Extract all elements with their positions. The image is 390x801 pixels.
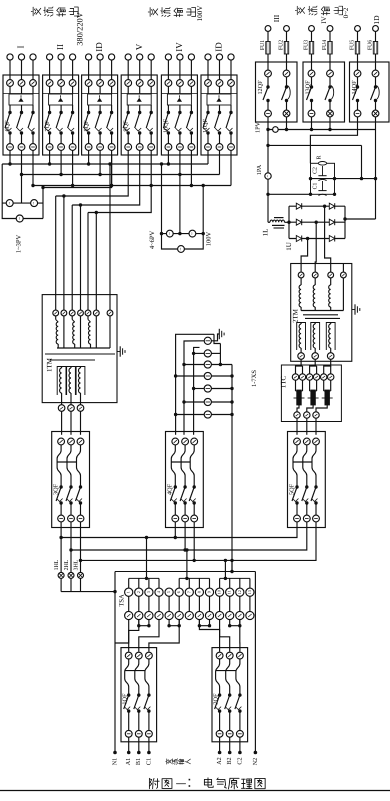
bus phase A bottom [59,528,297,540]
svg-text:10: 10 [217,590,222,594]
breaker 12QF [256,26,298,122]
svg-text:12: 12 [237,590,242,594]
TSA inter-row links [128,596,130,611]
breaker 5QF [288,432,326,528]
svg-text:2HL: 2HL [64,559,70,570]
wires 1TC to 5QF [297,418,316,435]
svg-text:ID: ID [94,42,104,52]
svg-text:II: II [55,44,65,50]
svg-text:~: ~ [8,201,13,204]
svg-text:4~6PV: 4~6PV [149,231,156,250]
svg-text:ID: ID [214,42,224,52]
wires 1TM secondary to 3QF [62,411,81,435]
breaker 7QF [43,44,79,155]
wires TSA to 1QF [129,620,180,652]
socket chain 1-7XS [174,334,234,571]
svg-text:V: V [134,43,144,50]
voltmeter group 1~3PV [2,164,45,222]
1TC output terminals [294,412,300,418]
breaker 1QF [121,648,157,755]
svg-text:FU3: FU3 [304,40,310,50]
svg-text:10QF: 10QF [163,118,170,133]
svg-text:6QF: 6QF [4,120,11,132]
svg-text:11: 11 [227,590,232,594]
wires TSA to 2QF [199,620,240,652]
2TM primary terminals [298,272,346,278]
svg-text:9: 9 [206,591,211,593]
svg-text:C1: C1 [312,183,318,190]
svg-text:FU4: FU4 [322,40,328,50]
pole drops to buses [8,155,231,187]
TSA pair links below row 2 [138,620,140,626]
breaker 11QF [201,42,237,155]
wire 1PA feeder [267,130,269,174]
svg-text:FU2: FU2 [279,40,285,50]
svg-text:8QF: 8QF [83,120,90,132]
transformer 1TM box [42,295,117,403]
bus B (y145.4) [266,144,363,181]
label AC output (middle group) [148,7,195,16]
breaker 9QF [121,43,157,155]
drops to 4~6PV [160,162,205,233]
labels A1 B1 C1 [125,758,152,766]
svg-text:2QF: 2QF [213,693,220,705]
rectifier 1U [287,203,346,241]
bus A (y129.5) [266,122,375,131]
capacitor C2 [318,166,326,181]
svg-text:2: 2 [136,591,141,593]
TSA row 1 terminals [125,588,254,596]
svg-text:1QF: 1QF [122,693,129,705]
wires block4 poles to 1TM feed (nested Z) [43,155,153,213]
labels A2 B2 C2 [216,757,243,765]
svg-text:1D: 1D [372,15,381,25]
label AC output (right group) [295,6,342,15]
fuse FU3 [309,42,313,55]
breaker 13QF [303,26,345,122]
CT block 1TC box [281,365,341,422]
1TM secondary windings [57,367,85,412]
TSA row 2 terminals [125,611,254,619]
svg-text:C1: C1 [145,758,152,765]
svg-text:1HL: 1HL [54,559,60,570]
svg-text:2TM: 2TM [292,308,300,323]
fuse FU1 [266,42,270,55]
wire 1PA to bridge [266,179,310,222]
terminal FU1 input [265,26,271,32]
svg-text:0~2: 0~2 [342,7,350,18]
svg-text:FU5: FU5 [350,40,356,50]
2TM secondary terminals [298,353,305,360]
svg-text:5: 5 [166,591,171,593]
wires 2TM to 1TC [292,359,334,380]
TSA jumpers and drops [129,538,250,628]
wire right feeder down [345,130,376,220]
resistor R [318,162,326,166]
ground XS [211,329,224,341]
svg-text:3: 3 [146,591,151,593]
breaker 10QF [161,42,197,155]
caption [149,778,265,789]
svg-text:13: 13 [247,590,252,594]
svg-text:~: ~ [191,232,196,235]
wires 1U outputs to 2TM [301,206,343,272]
svg-text:1: 1 [126,591,131,593]
svg-text:9QF: 9QF [122,120,129,132]
wire C-left branch to RC block [310,122,357,163]
terminal FU5 input [355,26,361,32]
svg-text:11QF: 11QF [202,119,209,133]
svg-text:7QF: 7QF [44,120,51,132]
svg-text:1~3PV: 1~3PV [15,235,22,254]
svg-text:380/220V: 380/220V [75,12,84,46]
svg-text:C2: C2 [312,167,318,174]
svg-text:3HL: 3HL [73,559,79,570]
wire N1 [113,572,129,755]
bus Y2 [22,174,220,176]
wire N2 [232,560,257,754]
svg-text:FU6: FU6 [368,40,374,50]
label AC input [166,759,191,765]
svg-text:1U: 1U [285,242,293,251]
svg-text:I: I [16,46,26,49]
transformer 2TM box [291,264,352,362]
svg-text:B1: B1 [135,758,142,765]
svg-text:N1: N1 [111,758,118,766]
breaker 6QF [3,46,39,156]
breaker 3QF [52,432,90,528]
svg-text:~: ~ [18,217,23,220]
svg-text:1TM: 1TM [46,357,54,372]
svg-text:6: 6 [176,591,181,593]
1TC CT windings [294,380,333,418]
breaker 4QF [166,432,204,528]
wire N bus top [115,571,255,573]
svg-text:7: 7 [186,591,191,593]
terminal FU3 input [309,26,315,32]
svg-text:FU1: FU1 [260,40,266,50]
svg-text:IV: IV [320,16,328,23]
svg-text:1-7XS: 1-7XS [251,370,258,387]
svg-text:B2: B2 [226,757,233,764]
bus phase C bottom [79,528,316,563]
svg-text:III: III [272,14,281,22]
terminal FU4 input [327,26,333,32]
svg-text:14QF: 14QF [351,80,358,95]
fuse FU6 [373,42,377,55]
svg-text:IV: IV [174,42,184,52]
2TM secondary windings [297,323,335,360]
ground 1TM [117,351,120,353]
svg-text:8: 8 [196,591,201,593]
1TC terminals [292,374,298,380]
svg-text:1TC: 1TC [280,375,288,388]
inductor 1L [269,218,290,228]
svg-text:A2: A2 [216,757,223,765]
svg-text:TSA: TSA [118,594,125,607]
bus phase B bottom [69,528,306,552]
bus to N (XS right) [231,365,233,572]
snubber R C1 C2 box [311,163,335,194]
bottom rule [0,790,390,792]
bus Y1 [2,163,208,165]
1TM primary terminals [53,310,113,316]
svg-text:R: R [316,155,322,159]
svg-text:1L: 1L [262,229,270,237]
svg-text:3QF: 3QF [53,483,60,495]
1TM feeder verticals [56,162,112,310]
bus Y3 [33,185,231,187]
fuse FU5 [355,42,359,55]
svg-text:5QF: 5QF [288,483,295,495]
1TM secondary terminals [58,405,65,412]
snubber mid line [309,177,377,196]
label AC output (left group) [31,7,78,16]
terminal FU6 input [373,26,379,32]
1TM core [45,353,115,355]
svg-text:13QF: 13QF [305,80,312,95]
2TM core [303,314,338,316]
breaker 14QF [350,26,390,122]
svg-text:~: ~ [168,232,173,235]
voltmeter 1PV [273,127,279,133]
capacitor C1 [318,181,326,195]
breaker 8QF [82,42,118,155]
svg-text:N2: N2 [252,758,259,766]
indicator lamps 1HL 2HL 3HL [54,538,117,594]
ammeter 1PA [265,173,271,179]
1TM primary windings [56,316,110,348]
2TM primary windings [299,278,343,311]
svg-text:12QF: 12QF [257,80,264,95]
svg-text:~: ~ [32,201,37,204]
svg-text:100V: 100V [205,231,212,246]
fuse FU2 [284,42,288,55]
terminal FU2 input [284,26,290,32]
svg-text:1PV: 1PV [254,121,261,133]
fuse FU4 [328,42,332,55]
svg-text:4QF: 4QF [166,483,173,495]
breaker 2QF [212,648,248,755]
svg-text:1PA: 1PA [256,164,263,175]
svg-text:~: ~ [179,247,184,250]
svg-text:A1: A1 [125,758,132,766]
ground 2TM [352,309,355,311]
voltmeter group 4~6PV [160,230,205,252]
svg-text:100V: 100V [196,5,204,22]
svg-text:C2: C2 [236,757,243,764]
